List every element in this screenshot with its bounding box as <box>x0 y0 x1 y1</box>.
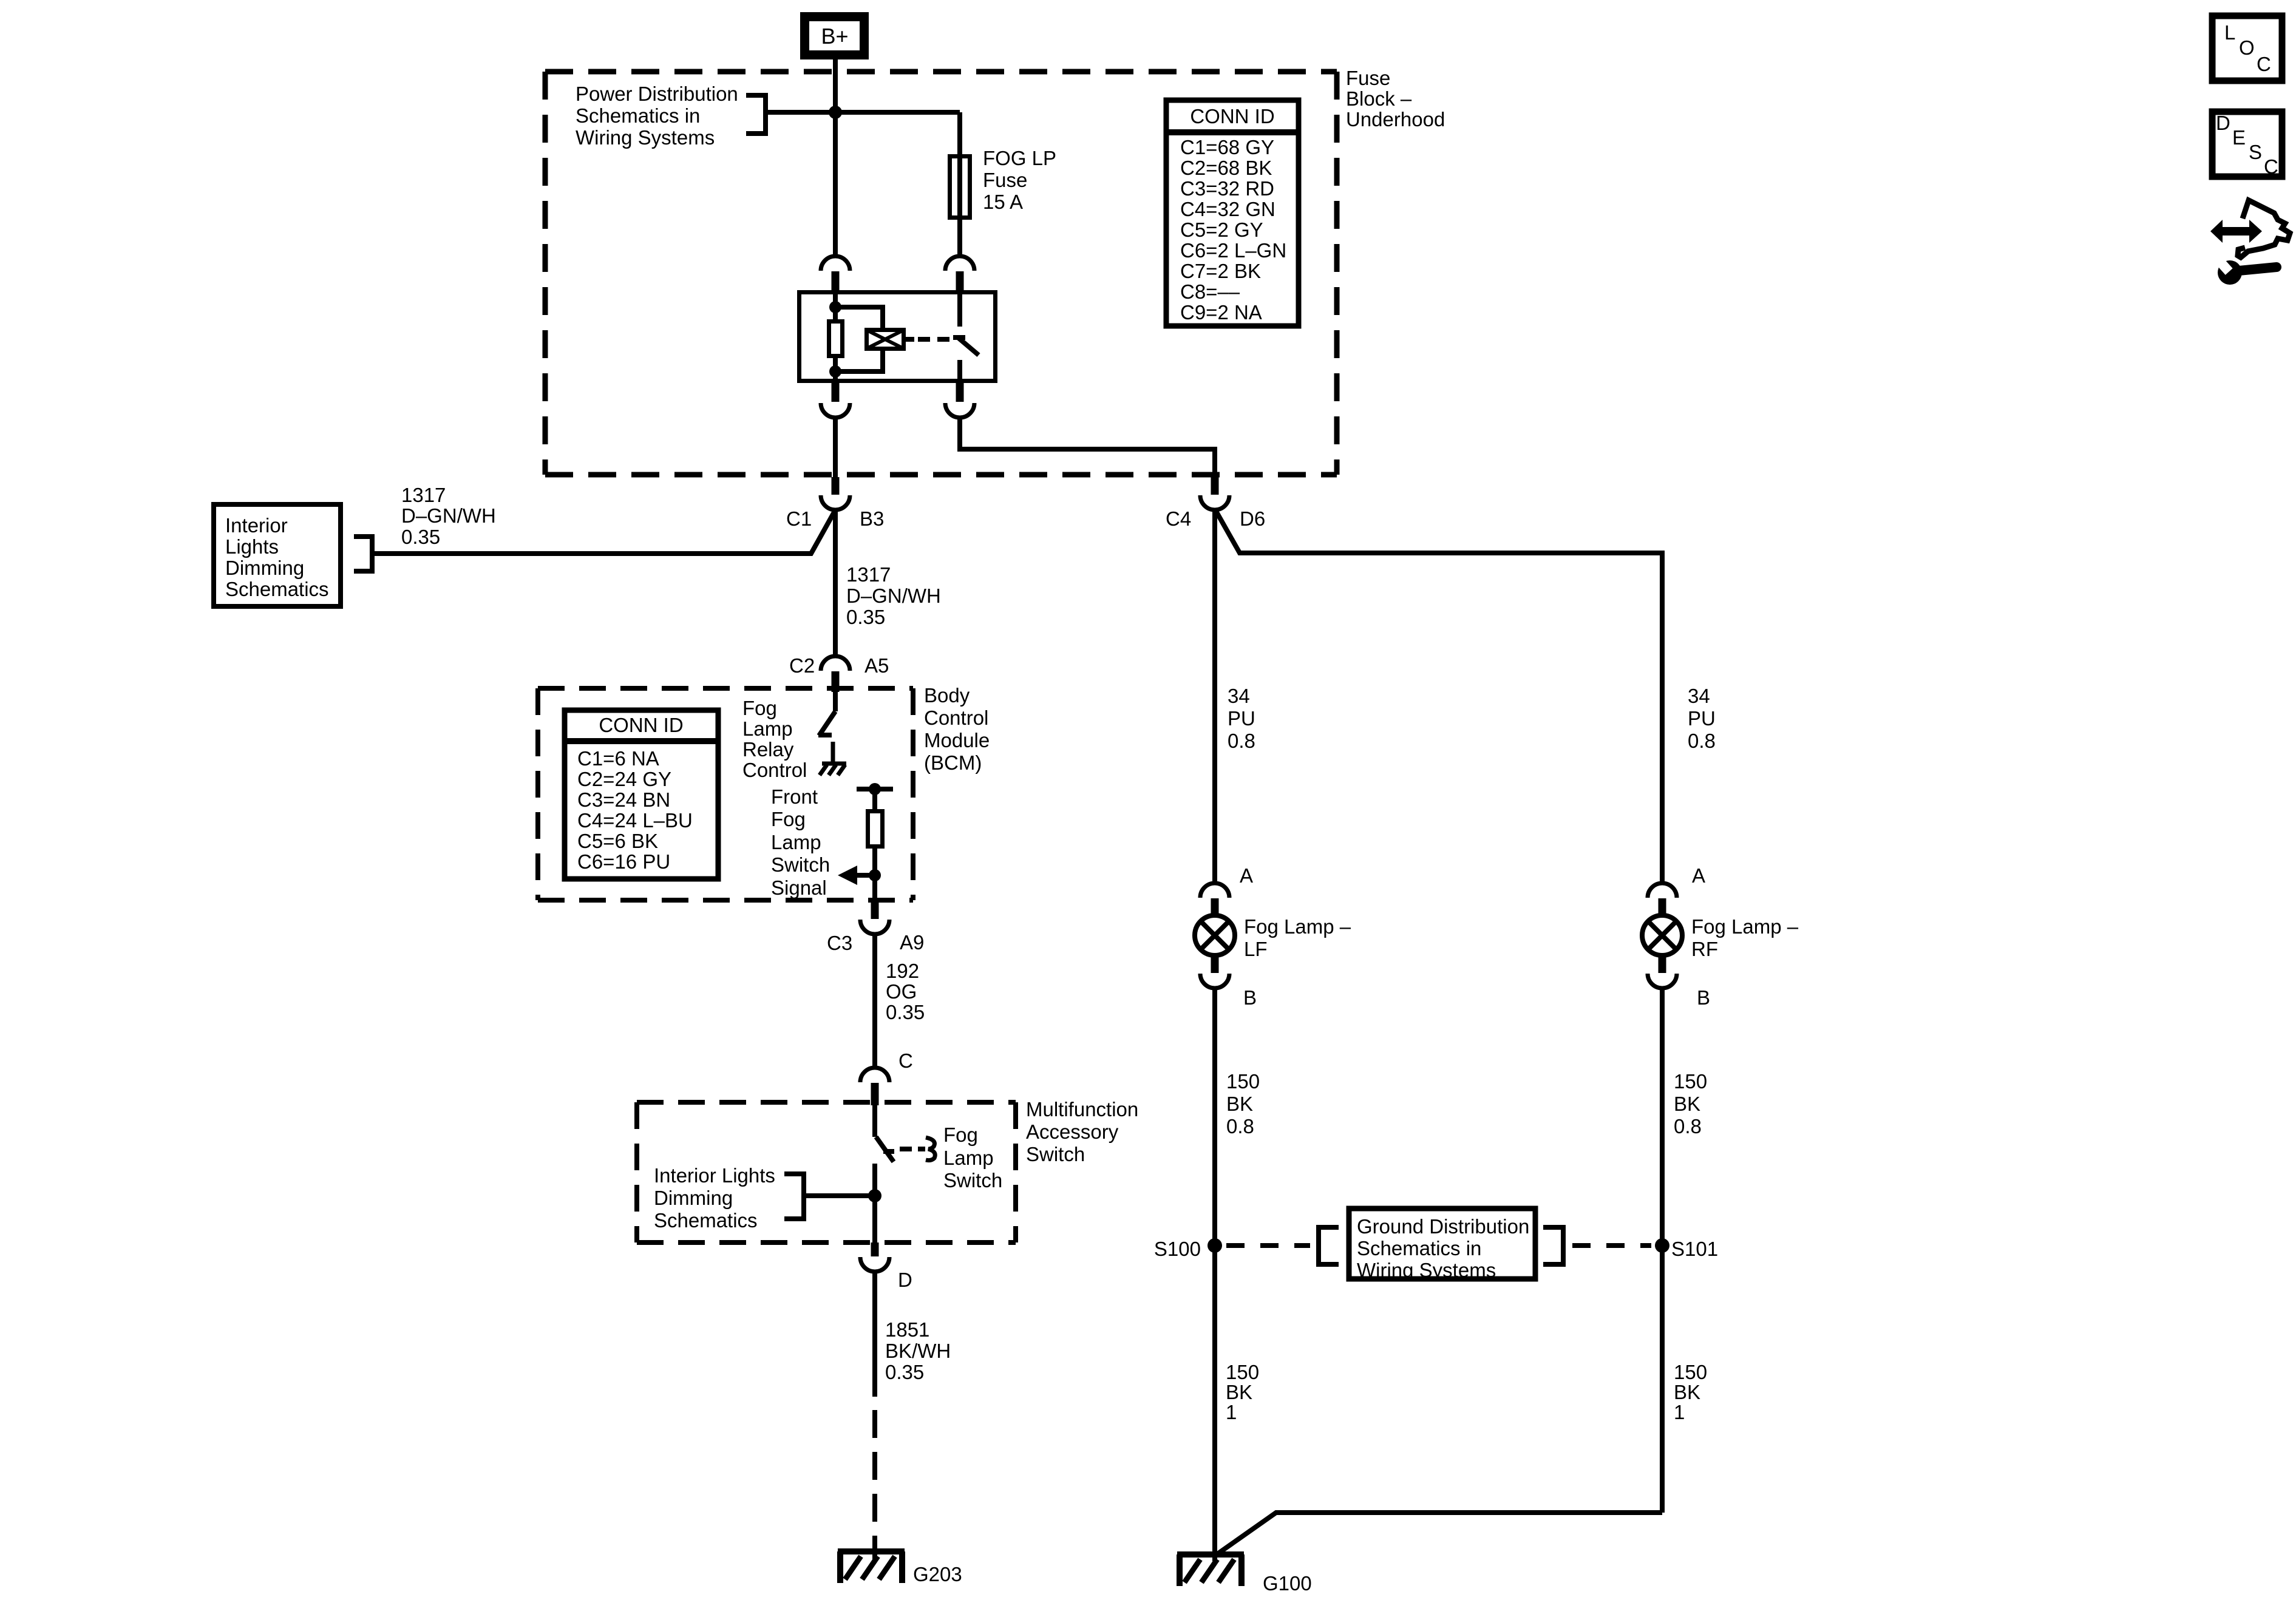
svg-text:Control: Control <box>924 707 988 729</box>
svg-text:C3=32 RD: C3=32 RD <box>1180 177 1274 200</box>
svg-text:B3: B3 <box>860 507 884 530</box>
svg-text:Dimming: Dimming <box>654 1187 733 1209</box>
svg-text:LF: LF <box>1244 938 1268 960</box>
svg-text:Module: Module <box>924 729 990 751</box>
svg-text:D: D <box>2216 112 2230 134</box>
svg-text:0.35: 0.35 <box>885 1361 924 1383</box>
svg-text:192: 192 <box>886 960 919 982</box>
svg-text:PU: PU <box>1688 707 1716 730</box>
svg-text:Accessory: Accessory <box>1026 1120 1119 1143</box>
svg-text:Signal: Signal <box>771 876 827 899</box>
svg-text:G203: G203 <box>913 1563 962 1585</box>
svg-text:S: S <box>2249 141 2262 163</box>
svg-text:34: 34 <box>1228 685 1250 707</box>
svg-text:D6: D6 <box>1240 507 1265 530</box>
svg-text:C2=68 BK: C2=68 BK <box>1180 157 1272 179</box>
svg-text:D–GN/WH: D–GN/WH <box>846 585 941 607</box>
svg-text:C4: C4 <box>1166 507 1191 530</box>
svg-text:Relay: Relay <box>742 738 794 761</box>
svg-text:CONN ID: CONN ID <box>599 714 683 736</box>
svg-text:Lights: Lights <box>225 535 279 558</box>
svg-text:0.8: 0.8 <box>1228 730 1255 752</box>
svg-text:Front: Front <box>771 785 818 808</box>
svg-text:A9: A9 <box>900 931 924 954</box>
svg-text:Schematics in: Schematics in <box>1357 1237 1481 1259</box>
svg-text:Fog Lamp –: Fog Lamp – <box>1691 915 1799 938</box>
svg-text:Fuse: Fuse <box>1346 67 1390 89</box>
svg-text:C5=2 GY: C5=2 GY <box>1180 219 1263 241</box>
svg-text:D: D <box>898 1269 912 1291</box>
svg-text:E: E <box>2232 126 2246 149</box>
svg-text:C6=2 L–GN: C6=2 L–GN <box>1180 239 1286 262</box>
svg-text:FOG LP: FOG LP <box>983 147 1056 169</box>
svg-text:0.35: 0.35 <box>401 526 440 548</box>
svg-text:C1=6 NA: C1=6 NA <box>577 747 659 770</box>
svg-text:C: C <box>2264 155 2278 178</box>
svg-text:OG: OG <box>886 980 917 1003</box>
svg-text:Body: Body <box>924 684 970 707</box>
svg-text:A: A <box>1692 864 1705 887</box>
svg-text:C8=––: C8=–– <box>1180 280 1240 303</box>
svg-text:C2: C2 <box>789 654 815 677</box>
svg-text:(BCM): (BCM) <box>924 751 982 774</box>
svg-text:Interior: Interior <box>225 514 288 537</box>
svg-text:C: C <box>2257 53 2271 75</box>
svg-text:C2=24 GY: C2=24 GY <box>577 768 671 790</box>
svg-text:Control: Control <box>742 759 807 781</box>
svg-text:Multifunction: Multifunction <box>1026 1098 1138 1120</box>
svg-text:BK: BK <box>1226 1381 1252 1403</box>
svg-text:Fog Lamp –: Fog Lamp – <box>1244 915 1351 938</box>
svg-text:B+: B+ <box>821 24 848 49</box>
svg-text:BK: BK <box>1674 1093 1700 1115</box>
svg-text:150: 150 <box>1226 1361 1259 1383</box>
svg-text:C3: C3 <box>827 932 852 954</box>
svg-text:PU: PU <box>1228 707 1255 730</box>
svg-text:O: O <box>2239 36 2255 59</box>
svg-text:1851: 1851 <box>885 1318 929 1341</box>
svg-text:Lamp: Lamp <box>771 831 821 853</box>
svg-text:B: B <box>1697 986 1710 1009</box>
svg-text:Wiring Systems: Wiring Systems <box>576 126 715 149</box>
svg-text:BK: BK <box>1674 1381 1700 1403</box>
svg-text:1: 1 <box>1674 1401 1685 1423</box>
svg-text:Fog: Fog <box>742 697 777 719</box>
svg-text:1: 1 <box>1226 1401 1237 1423</box>
svg-text:B: B <box>1243 986 1257 1009</box>
svg-text:Block –: Block – <box>1346 87 1412 110</box>
svg-text:Fuse: Fuse <box>983 169 1027 191</box>
svg-text:34: 34 <box>1688 685 1710 707</box>
svg-text:C7=2 BK: C7=2 BK <box>1180 260 1261 282</box>
svg-text:C1=68 GY: C1=68 GY <box>1180 136 1274 158</box>
svg-text:BK: BK <box>1226 1093 1253 1115</box>
svg-text:RF: RF <box>1691 938 1718 960</box>
svg-text:C5=6 BK: C5=6 BK <box>577 830 658 852</box>
svg-text:D–GN/WH: D–GN/WH <box>401 504 496 527</box>
svg-text:S100: S100 <box>1154 1238 1201 1260</box>
svg-text:Fog: Fog <box>771 808 806 830</box>
svg-text:Schematics in: Schematics in <box>576 104 700 127</box>
svg-text:0.8: 0.8 <box>1688 730 1716 752</box>
svg-text:Dimming: Dimming <box>225 557 304 579</box>
svg-text:15 A: 15 A <box>983 191 1023 213</box>
svg-text:C6=16 PU: C6=16 PU <box>577 850 670 873</box>
svg-text:1317: 1317 <box>846 563 891 586</box>
svg-text:C4=24 L–BU: C4=24 L–BU <box>577 809 693 832</box>
svg-text:150: 150 <box>1674 1070 1707 1093</box>
svg-text:Schematics: Schematics <box>225 578 329 600</box>
svg-text:1317: 1317 <box>401 484 446 506</box>
svg-text:Lamp: Lamp <box>943 1147 994 1169</box>
svg-text:C9=2 NA: C9=2 NA <box>1180 301 1262 324</box>
svg-text:Ground Distribution: Ground Distribution <box>1357 1215 1529 1238</box>
svg-text:Interior Lights: Interior Lights <box>654 1164 775 1187</box>
svg-text:A5: A5 <box>864 654 889 677</box>
svg-text:0.8: 0.8 <box>1226 1115 1254 1137</box>
svg-text:Switch: Switch <box>943 1169 1002 1192</box>
svg-text:Power Distribution: Power Distribution <box>576 83 738 105</box>
svg-text:CONN ID: CONN ID <box>1190 105 1274 127</box>
svg-text:Fog: Fog <box>943 1124 978 1146</box>
svg-text:150: 150 <box>1226 1070 1260 1093</box>
svg-text:S101: S101 <box>1671 1238 1718 1260</box>
svg-text:G100: G100 <box>1263 1572 1312 1595</box>
svg-text:Wiring Systems: Wiring Systems <box>1357 1259 1496 1281</box>
svg-text:C4=32 GN: C4=32 GN <box>1180 198 1275 220</box>
svg-text:L: L <box>2224 21 2235 44</box>
svg-text:Switch: Switch <box>771 853 830 876</box>
svg-text:A: A <box>1240 864 1253 887</box>
svg-text:Underhood: Underhood <box>1346 108 1445 131</box>
svg-text:0.35: 0.35 <box>886 1001 925 1023</box>
svg-text:C: C <box>898 1049 913 1072</box>
svg-text:C3=24 BN: C3=24 BN <box>577 788 670 811</box>
svg-text:0.8: 0.8 <box>1674 1115 1702 1137</box>
svg-text:BK/WH: BK/WH <box>885 1340 951 1362</box>
svg-text:Lamp: Lamp <box>742 717 793 740</box>
svg-text:Schematics: Schematics <box>654 1209 758 1232</box>
svg-text:150: 150 <box>1674 1361 1707 1383</box>
svg-text:Switch: Switch <box>1026 1143 1085 1165</box>
svg-text:0.35: 0.35 <box>846 606 885 628</box>
svg-text:C1: C1 <box>786 507 812 530</box>
